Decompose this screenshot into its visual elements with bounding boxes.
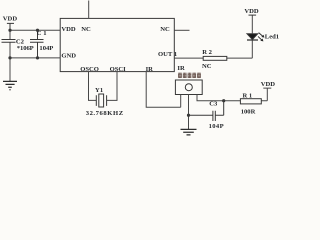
svg-text:100R: 100R [241, 108, 256, 115]
svg-text:VDD: VDD [261, 81, 276, 88]
ground right [181, 129, 197, 135]
node F: junction dot C3 bottom [187, 114, 190, 117]
resistor R1 [240, 99, 261, 104]
svg-text:IR: IR [177, 65, 185, 72]
LED Led1 [247, 15, 258, 40]
svg-text:VDD: VDD [244, 8, 259, 15]
wire OSCI stub [107, 72, 117, 101]
svg-text:Led1: Led1 [265, 33, 279, 40]
node D: rail bottom junction dot [8, 56, 11, 59]
wire top stub [88, 1, 90, 19]
svg-text:C3: C3 [209, 101, 218, 108]
wire left rail vertical [9, 30, 11, 81]
wire bottom left horizontal to IC GND pin [10, 57, 60, 59]
VDD power symbol top-left [7, 23, 14, 30]
receiver pins [181, 95, 241, 130]
svg-text:104P: 104P [209, 123, 224, 130]
svg-text:OUT 1: OUT 1 [158, 51, 177, 58]
svg-text:NC: NC [202, 63, 212, 70]
resistor R2 [203, 56, 227, 60]
svg-text:C 1: C 1 [37, 30, 47, 37]
capacitor C1 [30, 30, 44, 58]
wire top left horizontal to IC VDD pin [10, 29, 60, 31]
IR receiver lens circle [185, 84, 192, 91]
wire NC stub right [174, 29, 189, 31]
svg-text:IR: IR [146, 66, 154, 73]
node A: VDD junction dot [8, 29, 11, 32]
op-amp U1: IC box [60, 18, 174, 71]
svg-text:104P: 104P [39, 45, 53, 52]
node E: junction dot C3 top [222, 99, 225, 102]
wire pin B (gnd) [188, 95, 190, 130]
svg-text:*106P: *106P [17, 45, 34, 52]
crystal circuit wires [89, 72, 118, 101]
node C: C1 bottom junction dot [36, 56, 39, 59]
LED arrows [258, 33, 264, 42]
svg-text:OSCO: OSCO [80, 66, 99, 73]
svg-text:NC: NC [81, 26, 91, 33]
wire pin A (out) [180, 95, 182, 108]
node B: C1 top junction dot [36, 29, 39, 32]
svg-text:R 1: R 1 [243, 93, 253, 100]
svg-text:VDD: VDD [3, 16, 18, 23]
crystal Y1 [96, 94, 106, 107]
wire OUT1 to LED riser [174, 40, 252, 58]
wire OSCO stub [89, 72, 97, 101]
IR receiver [175, 80, 202, 95]
capacitor C3 [189, 101, 224, 121]
svg-text:Y 1: Y 1 [95, 87, 103, 94]
svg-text:R 2: R 2 [202, 49, 212, 56]
wire IR pin to receiver [146, 72, 181, 108]
wire R1 to VDD riser [261, 88, 271, 101]
capacitor C2 [2, 40, 16, 43]
wire pin C (vcc) [197, 95, 240, 101]
label chinese 红外接收头 [178, 73, 201, 78]
svg-text:VDD: VDD [61, 26, 76, 33]
svg-text:32.768KHZ: 32.768KHZ [86, 110, 124, 117]
ground left [3, 81, 17, 89]
svg-text:NC: NC [160, 26, 170, 33]
svg-text:GND: GND [61, 53, 76, 60]
svg-text:OSCI: OSCI [110, 66, 127, 73]
